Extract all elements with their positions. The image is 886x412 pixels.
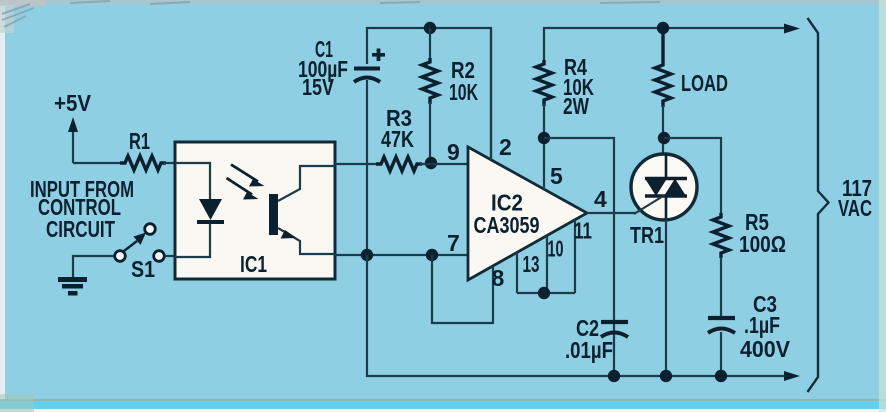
- wire: R5 to C3: [720, 257, 722, 318]
- switch S1: [115, 224, 165, 282]
- wire: IC1 lower out to pin 7: [335, 254, 468, 256]
- wire: top AC rail: [544, 28, 790, 62]
- wire: bottom rail: [367, 255, 790, 376]
- svg-text:TR1: TR1: [630, 222, 664, 248]
- wire: top DC rail: [367, 28, 491, 160]
- svg-text:7: 7: [447, 230, 460, 256]
- wire: LOAD to triac: [662, 105, 664, 154]
- wire: IC1 LED cathode: [175, 224, 210, 257]
- node: triac on rail: [660, 370, 672, 382]
- resistor R1: [120, 156, 166, 170]
- capacitor C3: [708, 291, 791, 362]
- svg-text:CIRCUIT: CIRCUIT: [46, 216, 115, 242]
- svg-text:.01µF: .01µF: [565, 337, 613, 363]
- node: bus junction: [538, 287, 550, 299]
- node: junction LOAD top: [657, 22, 669, 34]
- svg-text:S1: S1: [131, 256, 155, 282]
- node: C1 on pin7 line: [361, 249, 373, 261]
- wire: R2 column top: [429, 28, 431, 60]
- svg-text:IC1: IC1: [240, 251, 267, 277]
- svg-text:400V: 400V: [740, 336, 791, 362]
- svg-text:VAC: VAC: [838, 195, 872, 221]
- arrowhead bottom rail: [784, 371, 800, 381]
- capacitor C1: [298, 36, 385, 100]
- wire: IC1 out to R3: [335, 163, 378, 165]
- ground: [58, 277, 87, 296]
- op-amp IC2 triangle: [468, 147, 587, 280]
- wire: R4 to junction: [543, 104, 545, 138]
- node: pin8 loop on pin7 line: [426, 249, 438, 261]
- brace 117 VAC: [808, 18, 829, 392]
- wire: C1 column to pin7 line: [366, 80, 368, 255]
- capacitor C2: [565, 315, 628, 363]
- resistor R3: [376, 105, 422, 171]
- svg-text:2: 2: [499, 134, 512, 160]
- phototransistor in IC1: [269, 194, 278, 235]
- svg-text:10: 10: [548, 236, 564, 262]
- pin 11 stub: [574, 220, 576, 293]
- arrowhead top rail: [784, 24, 800, 34]
- wire: R3 to pin 9: [420, 163, 468, 165]
- svg-text:47K: 47K: [381, 126, 414, 152]
- wire: IC1 LED anode: [175, 163, 210, 200]
- wire: gate column down through C2: [613, 213, 615, 376]
- wire: triac gate diagonal: [634, 196, 664, 215]
- wire: C3 to rail: [720, 332, 722, 376]
- svg-text:CA3059: CA3059: [474, 212, 540, 238]
- node: C3 on rail: [715, 370, 727, 382]
- wire: R1 to IC1: [164, 162, 175, 164]
- wire: ground branch: [73, 256, 114, 277]
- pin 2 stub: [490, 28, 492, 160]
- LED diode in IC1: [199, 199, 222, 220]
- wire: +5V stub with up arrow: [72, 129, 74, 163]
- svg-text:15V: 15V: [302, 74, 335, 100]
- wire: R4 junction over to gate column: [544, 138, 614, 213]
- wire: R2 to pin9 line: [429, 102, 431, 163]
- svg-text:11: 11: [574, 218, 592, 244]
- optocoupler IC1 box: [175, 142, 335, 279]
- node: R2/R3 junction: [425, 157, 437, 169]
- pin 4 output: [587, 212, 636, 214]
- pin 13 stub: [516, 252, 518, 293]
- resistor R5: [713, 209, 786, 258]
- light arrows: [231, 165, 258, 182]
- node: R4/pin5 junction: [538, 132, 550, 144]
- svg-text:4: 4: [594, 186, 607, 212]
- resistor LOAD: [655, 28, 728, 107]
- wire: input line left: [73, 162, 122, 164]
- node: C2 on rail: [608, 370, 620, 382]
- svg-text:100Ω: 100Ω: [739, 231, 786, 257]
- resistor R2: [422, 57, 478, 105]
- node: LOAD/R5 junction: [658, 132, 670, 144]
- svg-text:13: 13: [523, 251, 540, 277]
- pin 5 stub: [543, 138, 545, 190]
- svg-text:5: 5: [550, 163, 563, 189]
- triac TR1: [630, 154, 697, 248]
- svg-text:9: 9: [447, 139, 460, 165]
- svg-text:+5V: +5V: [54, 90, 92, 116]
- svg-text:10K: 10K: [449, 79, 478, 105]
- svg-text:8: 8: [492, 265, 505, 291]
- pin 8 loop: [432, 255, 493, 323]
- wire: pins 13-10-11 bus: [517, 292, 575, 294]
- resistor R4: [536, 54, 594, 119]
- svg-text:R1: R1: [129, 128, 150, 154]
- wire: S1 to IC1: [165, 255, 175, 257]
- node: junction R2 top: [424, 22, 436, 34]
- svg-text:LOAD: LOAD: [681, 70, 728, 96]
- wire: triac MT2 down: [665, 219, 667, 376]
- wire: branch to R5 column: [664, 138, 721, 215]
- pin 10 stub: [546, 235, 548, 293]
- svg-text:2W: 2W: [563, 93, 589, 119]
- svg-text:.1µF: .1µF: [744, 312, 780, 338]
